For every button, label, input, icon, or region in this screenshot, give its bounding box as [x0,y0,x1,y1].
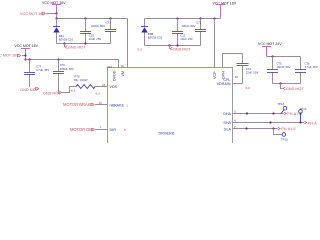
pin CPL [223,75,238,82]
capacitor C77 [24,60,49,88]
test point TP14 [299,107,307,122]
svg-text:VCP: VCP [213,71,217,79]
junction [269,121,271,123]
svg-text:nBRAKE: nBRAKE [110,103,125,107]
port GND MOT (C77) [20,87,39,92]
junction [246,112,248,114]
power symbol VCC MOT 16V (lower left) [14,44,38,60]
svg-text:TP14: TP14 [300,107,307,111]
svg-text:5: 5 [234,110,236,114]
wire 24V cap ground bus [273,83,301,85]
capacitor C75 [267,57,291,84]
wire GLA to TP15 [274,129,282,135]
junction [176,17,178,19]
svg-text:BZV55-C16: BZV55-C16 [59,37,74,41]
port VCC MOT 16V (off-page connector, left) [20,12,45,16]
wire port to node [46,13,56,15]
svg-text:DIR: DIR [110,128,117,132]
svg-text:C74: C74 [246,67,252,71]
capacitor C72 [182,19,207,46]
port GND MOT (section2) [170,46,192,52]
capacitor C10 [80,19,101,44]
svg-text:PH-A LS: PH-A LS [281,127,296,131]
svg-text:C75: C75 [277,61,283,65]
svg-text:BZV55-C16: BZV55-C16 [148,36,163,40]
svg-text:C76: C76 [305,61,311,65]
junction [213,17,215,19]
junction [199,17,201,19]
svg-text:22nF, 50V: 22nF, 50V [246,71,259,75]
pin VCP [213,19,217,80]
wire bus1 top [57,18,128,20]
port MOTOR BRAKE [63,101,108,107]
svg-text:6,3: 6,3 [96,91,101,95]
capacitor C79 [53,60,74,92]
svg-text:TP13: TP13 [278,102,285,106]
power symbol VCC MOT 16V (right) [213,2,237,19]
junction [176,44,178,46]
svg-text:D3B: D3B [148,32,154,36]
junction [168,44,170,46]
pin DVDD [113,64,125,81]
resistor R76 [74,74,96,88]
svg-text:D3A: D3A [59,34,65,38]
capacitor C71 [91,19,116,44]
svg-text:GHA: GHA [223,112,232,116]
port C MOT 16V (left edge) [0,54,21,58]
test point TP15 [281,133,288,142]
svg-text:TP15: TP15 [281,137,288,141]
svg-text:R76: R76 [75,74,81,78]
pin SHA [223,119,304,125]
svg-text:U16: U16 [107,65,113,69]
svg-text:GND MOT: GND MOT [173,47,191,51]
port PH-A HS [284,112,303,116]
svg-text:100nF, 50V: 100nF, 50V [277,65,291,69]
svg-text:GND MOT: GND MOT [68,46,86,50]
power symbol VCC MOT 16V (left) [42,1,66,13]
junction [272,112,274,114]
svg-text:C71: C71 [106,21,112,25]
svg-text:MOTOR BRAKE: MOTOR BRAKE [63,102,93,107]
svg-text:DRV8306: DRV8306 [159,132,175,136]
port GND MOT (section1) [65,44,87,50]
svg-text:10uF, 25V: 10uF, 25V [180,37,193,41]
capacitor C74 (flying cap) [233,64,259,84]
svg-text:C77: C77 [36,64,42,68]
svg-text:5,3: 5,3 [138,47,143,51]
junction [245,127,247,129]
wire 16V rail to DVDD pin [26,60,119,68]
junction [299,121,301,123]
svg-text:SHA: SHA [223,121,231,125]
svg-text:GND MOT: GND MOT [286,87,304,91]
svg-text:30: 30 [235,75,239,79]
svg-text:100nF, 50V: 100nF, 50V [182,24,196,28]
wire bus1 bottom [57,43,111,45]
wire bus1 drop to VM pin [127,19,129,68]
svg-text:1: 1 [126,103,128,107]
port GND MOT (C79 / R76 net) [43,91,62,95]
wire GND to resistor [62,87,76,93]
svg-text:5: 5 [124,128,126,132]
pin CPH [222,54,243,80]
svg-text:VCC MOT 16V: VCC MOT 16V [14,44,38,48]
junction [57,58,59,60]
svg-text:VM: VM [121,71,125,77]
wire VCC drop to bus1 [56,14,58,19]
svg-text:PH-A: PH-A [308,122,317,126]
svg-text:MOTOR DIR: MOTOR DIR [70,127,93,132]
junction [84,42,86,44]
zener diode D3B [141,19,163,46]
wire resistor to VDS pin [96,86,108,88]
junction [24,54,26,56]
svg-text:C72: C72 [196,21,202,25]
svg-text:16: 16 [120,64,124,68]
svg-text:24: 24 [102,83,106,87]
svg-text:VCC MOT 24V: VCC MOT 24V [258,42,282,46]
wire bus2 bottom [145,45,201,47]
junction [63,42,65,44]
port GND MOT (24V section) [281,84,305,92]
svg-text:GLA: GLA [224,127,232,131]
port PH-A [304,121,317,126]
junction [28,58,30,60]
svg-text:4.7uF, 35V: 4.7uF, 35V [305,65,318,69]
pin GHA [223,110,284,117]
svg-text:10uF, 25V: 10uF, 25V [89,37,102,41]
svg-text:5,3: 5,3 [246,86,251,90]
capacitor C76 [295,57,318,84]
port MOTOR DIR [70,125,108,132]
svg-text:DVDD: DVDD [113,70,117,81]
junction [24,58,26,60]
test point TP13 [278,102,287,114]
svg-text:VDRAIN: VDRAIN [217,82,231,86]
junction [55,17,57,19]
wire bus2 top [145,18,221,20]
svg-text:VCC MOT 16V: VCC MOT 16V [20,12,45,16]
wire 24V rail [267,56,301,58]
wire port to power drop [22,55,26,57]
junction [279,82,281,84]
svg-text:7: 7 [100,125,102,129]
junction [271,55,273,57]
IC U16 DRV8306 body [107,65,233,148]
junction [55,12,57,14]
power symbol VCC MOT 24V [258,42,282,56]
svg-text:6,3: 6,3 [71,89,76,93]
junction [272,127,274,129]
zener diode D3A [53,19,74,44]
svg-text:100nF, 50V: 100nF, 50V [60,67,74,71]
junction [109,17,111,19]
pin GLA [224,125,278,131]
svg-text:70k, 1/10W: 70k, 1/10W [74,78,88,82]
svg-text:VDS: VDS [110,85,118,89]
port PH-A LS [278,127,296,131]
pin DIR [110,128,127,132]
svg-text:100nF, 50V: 100nF, 50V [91,24,105,28]
capacitor C12 [172,19,193,46]
junction [84,17,86,19]
svg-text:C79: C79 [60,63,66,67]
svg-text:10: 10 [99,101,103,105]
pin nBRAKE [110,103,129,107]
svg-text:C MOT 16V: C MOT 16V [0,54,19,58]
svg-text:4.7uF, 35V: 4.7uF, 35V [36,68,49,72]
